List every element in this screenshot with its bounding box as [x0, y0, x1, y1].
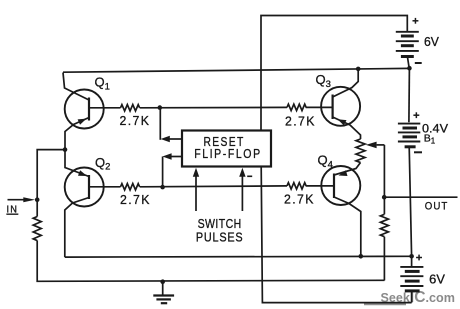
svg-text:2.7K: 2.7K — [120, 114, 151, 128]
wire base rail Q1-Q3 — [89, 107, 121, 109]
battery 6V bottom — [400, 256, 423, 302]
svg-text:Q1: Q1 — [95, 75, 110, 93]
svg-text:SWITCH: SWITCH — [198, 217, 242, 231]
watermark — [364, 289, 455, 306]
wire flip-flop bottom to negative rail — [261, 167, 411, 303]
wire R-in to ground rail — [37, 241, 384, 282]
wire OUT line — [384, 196, 457, 198]
wire base rail Q2-Q4 — [89, 186, 121, 188]
svg-text:2.7K: 2.7K — [284, 192, 315, 206]
svg-text:Q4: Q4 — [318, 153, 333, 171]
node IN junction — [35, 197, 40, 202]
wire emitters Q1-Q2 to IN node — [37, 150, 65, 217]
label - at pulse input 2 — [247, 175, 252, 177]
wire battery column top-6V to B1 — [408, 68, 411, 122]
wire collector rail Q2-Q4 (bottom) — [65, 255, 412, 258]
wire wiper to OUT node — [383, 145, 385, 214]
node battery junction — [407, 66, 412, 71]
wire R-out to ground rail — [383, 237, 385, 281]
label - of B1 — [414, 151, 422, 153]
wire switch pulse input 1 — [193, 168, 199, 211]
label + of top 6V battery — [413, 18, 419, 24]
node ground junction — [160, 279, 165, 284]
battery B1 0.4V — [398, 124, 420, 147]
wire switch pulse input 2 — [239, 168, 245, 211]
potentiometer body — [356, 139, 365, 163]
node base rail 2 — [160, 185, 165, 190]
resistor R-in — [33, 217, 41, 241]
resistor R-out — [380, 214, 388, 236]
svg-text:OUT: OUT — [425, 200, 449, 212]
svg-text:IN: IN — [7, 204, 19, 216]
node bottom battery + — [409, 254, 414, 259]
wire base rail 2 to Q4 — [306, 185, 334, 187]
label + of B1 — [413, 112, 419, 118]
potentiometer wiper — [366, 142, 385, 149]
wire flip-flop output 1 — [160, 108, 182, 143]
resistor R1 2.7K — [121, 105, 140, 111]
IN arrowhead — [23, 197, 35, 202]
transistor Q4 — [321, 163, 361, 257]
label - of top battery — [415, 62, 422, 64]
resistor R2 2.7K — [121, 184, 140, 190]
svg-text:2.7K: 2.7K — [120, 193, 151, 207]
wire B1 to bottom battery — [409, 147, 411, 256]
svg-text:2.7K: 2.7K — [285, 114, 316, 128]
wire base rail to Q3 — [306, 106, 333, 108]
wire base rail middle — [140, 106, 287, 108]
resistor R3 2.7K — [287, 104, 306, 110]
flip-flop box — [182, 131, 271, 167]
battery 6V top — [396, 32, 419, 68]
svg-text:Q3: Q3 — [316, 72, 331, 90]
svg-text:Q2: Q2 — [95, 155, 110, 173]
transistor Q3 — [321, 69, 360, 139]
wire top supply rail — [63, 68, 409, 72]
transistor Q1 — [63, 73, 104, 150]
svg-text:6V: 6V — [429, 272, 445, 286]
wire flip-flop output 2 — [162, 153, 181, 187]
transistor Q2 — [65, 150, 104, 258]
node base rail 1 — [158, 105, 163, 110]
node Q1-Q2 emitters — [63, 147, 68, 152]
ground — [153, 282, 174, 304]
node OUT junction — [382, 195, 387, 200]
wire base rail 2 middle — [140, 185, 287, 188]
wire +6V rail to flip-flop — [261, 16, 407, 131]
wire IN lead — [8, 199, 27, 201]
label + of bottom battery — [416, 255, 422, 261]
svg-text:6V: 6V — [424, 35, 440, 49]
svg-text:FLIP-FLOP: FLIP-FLOP — [194, 147, 262, 161]
svg-text:PULSES: PULSES — [196, 230, 244, 244]
node Q4 collector — [359, 254, 364, 259]
node Q3 collector — [356, 67, 361, 72]
resistor R4 2.7K — [287, 183, 306, 189]
